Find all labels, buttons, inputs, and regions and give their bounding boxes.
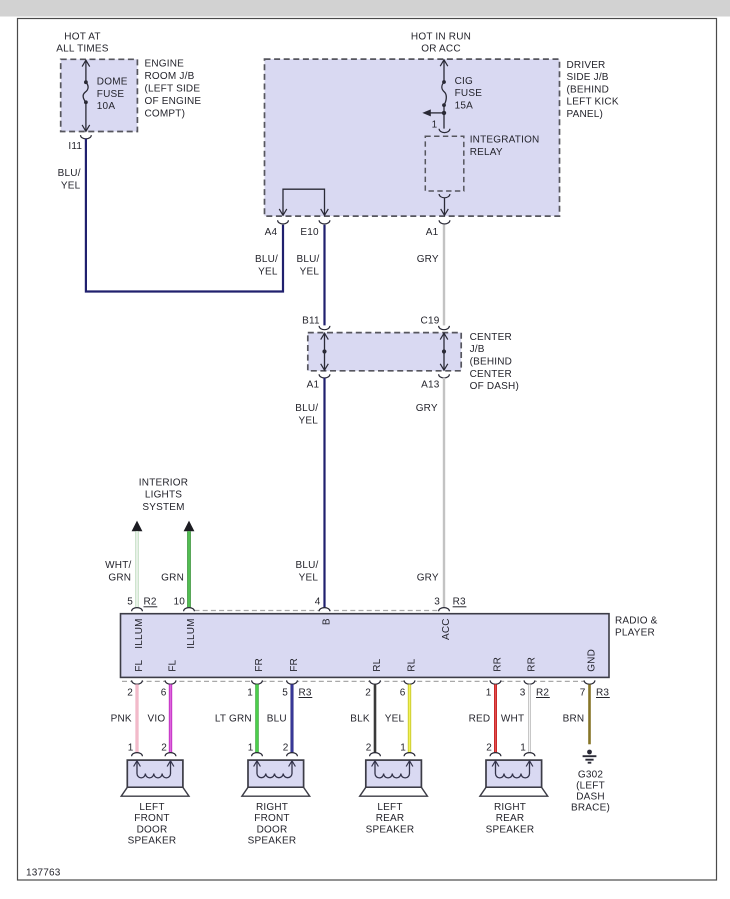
svg-text:FL: FL bbox=[134, 659, 145, 671]
svg-text:LEFT: LEFT bbox=[139, 802, 164, 813]
speaker: LEFT REAR SPEAKER bbox=[360, 753, 428, 797]
wire label PNK bbox=[111, 713, 132, 724]
svg-text:ILLUM: ILLUM bbox=[186, 618, 197, 648]
svg-text:(BEHIND: (BEHIND bbox=[567, 85, 610, 96]
label ENGINE ROOM J/B (LEFT SIDE OF ENGINE COMPT) bbox=[145, 59, 202, 120]
svg-text:DOME: DOME bbox=[97, 77, 128, 88]
svg-text:A4: A4 bbox=[265, 227, 278, 238]
svg-text:FL: FL bbox=[168, 659, 179, 671]
svg-text:ACC: ACC bbox=[441, 618, 452, 640]
svg-text:PLAYER: PLAYER bbox=[615, 627, 655, 638]
wire BLU/YEL from I11 to A4 bbox=[86, 139, 283, 292]
connector pin C19 bbox=[421, 315, 450, 329]
svg-text:15A: 15A bbox=[455, 101, 474, 112]
svg-text:1: 1 bbox=[432, 119, 438, 130]
svg-text:OF ENGINE: OF ENGINE bbox=[145, 96, 202, 107]
wire label BRN bbox=[563, 713, 585, 724]
svg-text:6: 6 bbox=[161, 687, 167, 698]
label RADIO & PLAYER bbox=[615, 615, 658, 638]
svg-text:LIGHTS: LIGHTS bbox=[145, 490, 182, 501]
svg-text:WHT/: WHT/ bbox=[105, 560, 131, 571]
wire RED from radio to load bbox=[494, 684, 497, 752]
svg-text:(BEHIND: (BEHIND bbox=[470, 357, 513, 368]
wire label YEL bbox=[385, 713, 405, 724]
svg-text:LEFT KICK: LEFT KICK bbox=[567, 97, 619, 108]
fuse DOME FUSE 10A bbox=[82, 60, 90, 131]
wire label GRY (above radio) bbox=[417, 572, 439, 583]
svg-text:RL: RL bbox=[407, 658, 418, 671]
svg-text:YEL: YEL bbox=[61, 180, 81, 191]
svg-text:BRN: BRN bbox=[563, 713, 585, 724]
svg-text:A1: A1 bbox=[307, 379, 320, 390]
wire label RED bbox=[469, 713, 491, 724]
svg-text:SYSTEM: SYSTEM bbox=[142, 502, 184, 513]
wire label VIO bbox=[147, 713, 165, 724]
svg-text:FUSE: FUSE bbox=[97, 89, 125, 100]
connector pin E10 bbox=[300, 220, 330, 238]
label RIGHT FRONT DOOR SPEAKER bbox=[248, 802, 297, 846]
grid ref R3 (pin 3) bbox=[453, 597, 467, 608]
wire label BLU/YEL (above radio) bbox=[295, 560, 318, 583]
svg-text:BLU/: BLU/ bbox=[255, 254, 278, 265]
wire label WHT bbox=[501, 713, 524, 724]
svg-text:OF DASH): OF DASH) bbox=[470, 381, 519, 392]
wire GRY from A1 to C19 bbox=[443, 225, 445, 326]
junction block: CENTER J/B (dashed box) bbox=[308, 333, 461, 371]
svg-text:FRONT: FRONT bbox=[134, 813, 169, 824]
svg-text:ENGINE: ENGINE bbox=[145, 59, 185, 70]
svg-text:YEL: YEL bbox=[300, 267, 320, 278]
svg-text:1: 1 bbox=[247, 687, 253, 698]
label HOT AT ALL TIMES bbox=[56, 31, 109, 54]
wire GRN from radio pin 10 to interior lights bbox=[187, 531, 191, 607]
svg-text:INTEGRATION: INTEGRATION bbox=[470, 134, 540, 145]
wire VIO from radio to load bbox=[169, 684, 172, 752]
svg-text:DRIVER: DRIVER bbox=[567, 60, 606, 71]
svg-text:LEFT: LEFT bbox=[377, 802, 402, 813]
svg-text:R2: R2 bbox=[536, 687, 549, 698]
svg-text:2: 2 bbox=[365, 687, 371, 698]
wire label GRN bbox=[161, 572, 184, 583]
svg-text:J/B: J/B bbox=[470, 344, 485, 355]
grid ref R2 (pin 3) bbox=[536, 687, 550, 698]
dashed connector line (radio top connector) bbox=[195, 610, 439, 612]
svg-text:2: 2 bbox=[127, 687, 133, 698]
label DRIVER SIDE J/B (BEHIND LEFT KICK PANEL) bbox=[567, 60, 619, 120]
grid ref R2 (pin 5) bbox=[144, 597, 158, 608]
wire PNK from radio to load bbox=[136, 684, 139, 752]
connector pin A1 (center J/B) bbox=[307, 374, 330, 390]
svg-text:PANEL): PANEL) bbox=[567, 109, 604, 120]
svg-text:GRY: GRY bbox=[417, 254, 439, 265]
wire label BLK bbox=[350, 713, 370, 724]
svg-text:1: 1 bbox=[400, 742, 406, 753]
wire WHT from radio to load bbox=[528, 684, 531, 752]
svg-text:I11: I11 bbox=[68, 141, 82, 152]
wire BLK from radio to load bbox=[374, 684, 377, 752]
svg-text:RIGHT: RIGHT bbox=[256, 802, 288, 813]
wire label LT GRN bbox=[215, 713, 252, 724]
relay: INTEGRATION RELAY (dashed box) bbox=[425, 136, 464, 191]
svg-text:R3: R3 bbox=[299, 687, 312, 698]
svg-text:2: 2 bbox=[283, 742, 289, 753]
svg-text:RADIO &: RADIO & bbox=[615, 615, 658, 626]
svg-text:A13: A13 bbox=[421, 379, 440, 390]
speaker: RIGHT FRONT DOOR SPEAKER bbox=[242, 753, 310, 797]
speaker pin 1 (x=409.5) bbox=[400, 742, 406, 753]
svg-text:GRY: GRY bbox=[416, 403, 438, 414]
svg-text:INTERIOR: INTERIOR bbox=[139, 477, 188, 488]
speaker pin 1 (x=529.5) bbox=[520, 742, 526, 753]
pin 1 of integration relay bbox=[432, 119, 450, 132]
pin 2 (radio bottom, x=137) bbox=[127, 680, 142, 698]
svg-text:ILLUM: ILLUM bbox=[134, 618, 145, 648]
svg-text:RL: RL bbox=[372, 658, 383, 671]
pin 1 (radio bottom, x=257) bbox=[247, 680, 262, 698]
svg-text:OR ACC: OR ACC bbox=[421, 44, 461, 55]
svg-text:E10: E10 bbox=[300, 227, 319, 238]
wire label BLU bbox=[267, 713, 287, 724]
fuse CIG FUSE 15A bbox=[440, 60, 448, 129]
svg-text:YEL: YEL bbox=[298, 415, 318, 426]
off-page arrow to interior lights (WHT/GRN) bbox=[132, 521, 143, 532]
svg-text:DOOR: DOOR bbox=[257, 824, 288, 835]
pin 4 (radio, B) bbox=[315, 597, 330, 612]
svg-text:3: 3 bbox=[520, 687, 526, 698]
svg-text:RR: RR bbox=[493, 657, 504, 672]
svg-text:FR: FR bbox=[254, 658, 265, 672]
wire label GRY (A1 column) bbox=[417, 254, 439, 265]
speaker pin 1 (x=257) bbox=[248, 742, 254, 753]
ground G302 bbox=[583, 750, 597, 763]
svg-text:CENTER: CENTER bbox=[470, 369, 512, 380]
wire BLU/YEL from E10 to B11 bbox=[323, 225, 325, 326]
label INTEGRATION RELAY bbox=[470, 134, 540, 158]
svg-text:A1: A1 bbox=[426, 227, 439, 238]
svg-text:SPEAKER: SPEAKER bbox=[486, 824, 535, 835]
svg-text:BRACE): BRACE) bbox=[571, 803, 610, 814]
svg-text:ALL TIMES: ALL TIMES bbox=[56, 44, 109, 55]
pin 10 (radio, ILLUM) bbox=[173, 597, 194, 612]
svg-text:GRY: GRY bbox=[417, 572, 439, 583]
svg-text:SIDE J/B: SIDE J/B bbox=[567, 72, 609, 83]
component: RADIO & PLAYER (solid box) bbox=[121, 614, 610, 678]
wire BLU from radio to load bbox=[291, 684, 294, 752]
svg-text:SPEAKER: SPEAKER bbox=[128, 836, 177, 847]
svg-text:R3: R3 bbox=[453, 597, 466, 608]
svg-text:YEL: YEL bbox=[299, 572, 319, 583]
svg-text:FR: FR bbox=[289, 658, 300, 672]
svg-text:1: 1 bbox=[128, 742, 134, 753]
svg-text:2: 2 bbox=[366, 742, 372, 753]
svg-text:SPEAKER: SPEAKER bbox=[366, 824, 415, 835]
svg-text:BLU/: BLU/ bbox=[295, 403, 318, 414]
wire LT GRN from radio to load bbox=[255, 684, 258, 752]
svg-text:4: 4 bbox=[315, 597, 321, 608]
svg-text:R3: R3 bbox=[596, 687, 609, 698]
svg-text:SPEAKER: SPEAKER bbox=[248, 836, 297, 847]
svg-text:REAR: REAR bbox=[496, 813, 525, 824]
node: junction dot with branch arrow (to other circuits) bbox=[422, 109, 446, 116]
speaker pin 2 (x=375) bbox=[366, 742, 372, 753]
svg-text:C19: C19 bbox=[421, 315, 440, 326]
grid ref R3 (pin 7) bbox=[596, 687, 610, 698]
wire jumper inside J/B linking A4 and E10 bbox=[279, 189, 328, 215]
pin 5 (radio, ILLUM) bbox=[127, 597, 142, 612]
svg-text:GRN: GRN bbox=[108, 572, 131, 583]
svg-text:1: 1 bbox=[248, 742, 254, 753]
svg-text:BLK: BLK bbox=[350, 713, 370, 724]
value label DOME FUSE 10A bbox=[97, 77, 128, 113]
svg-text:GRN: GRN bbox=[161, 572, 184, 583]
svg-text:FRONT: FRONT bbox=[254, 813, 289, 824]
wire GRY from A13 to radio pin 3 bbox=[443, 378, 445, 608]
connector pin A4 bbox=[265, 220, 289, 238]
off-page arrow to interior lights (GRN) bbox=[184, 521, 195, 532]
svg-text:DOOR: DOOR bbox=[137, 824, 168, 835]
dashed connector line (radio bottom connector) bbox=[122, 680, 595, 682]
connector pin I11 bbox=[68, 135, 91, 152]
wire BLU/YEL from A1 to radio pin 4 bbox=[323, 378, 325, 608]
svg-text:YEL: YEL bbox=[258, 267, 278, 278]
svg-text:6: 6 bbox=[400, 687, 406, 698]
wire label GRY (below center J/B) bbox=[416, 403, 438, 414]
connector pin A13 bbox=[421, 374, 449, 390]
label LEFT FRONT DOOR SPEAKER bbox=[128, 802, 177, 846]
grid ref R3 (pin 5) bbox=[299, 687, 313, 698]
svg-text:VIO: VIO bbox=[147, 713, 165, 724]
speaker pin 2 (x=495.5) bbox=[486, 742, 492, 753]
label HOT IN RUN OR ACC bbox=[411, 31, 471, 54]
svg-text:CIG: CIG bbox=[455, 76, 473, 87]
wire WHT/GRN from radio pin 5 to interior lights bbox=[135, 531, 138, 607]
svg-text:BLU/: BLU/ bbox=[295, 560, 318, 571]
svg-text:GND: GND bbox=[587, 649, 598, 672]
pin 5 (radio bottom, x=292) bbox=[282, 680, 297, 698]
pin 6 (radio bottom, x=170.5) bbox=[161, 680, 176, 698]
speaker: LEFT FRONT DOOR SPEAKER bbox=[121, 753, 189, 797]
speaker pin 1 (x=137) bbox=[128, 742, 134, 753]
value label CIG FUSE 15A bbox=[455, 76, 483, 112]
wire YEL from radio to load bbox=[408, 684, 411, 752]
relay output connector and wire to box edge bbox=[439, 194, 450, 215]
svg-text:RR: RR bbox=[527, 657, 538, 672]
pin 6 (radio bottom, x=409.5) bbox=[400, 680, 415, 698]
svg-text:WHT: WHT bbox=[501, 713, 524, 724]
label INTERIOR LIGHTS SYSTEM bbox=[139, 477, 188, 513]
svg-text:3: 3 bbox=[434, 597, 440, 608]
label LEFT REAR SPEAKER bbox=[366, 802, 415, 835]
svg-text:(LEFT: (LEFT bbox=[576, 781, 605, 792]
connector pin B11 bbox=[302, 315, 330, 329]
pin 2 (radio bottom, x=375) bbox=[365, 680, 380, 698]
svg-text:BLU: BLU bbox=[267, 713, 287, 724]
junction block: ENGINE ROOM J/B (dashed box) bbox=[61, 59, 138, 131]
svg-text:HOT IN RUN: HOT IN RUN bbox=[411, 31, 471, 42]
svg-text:DASH: DASH bbox=[576, 792, 605, 803]
speaker pin 2 (x=170.5) bbox=[161, 742, 167, 753]
label RIGHT REAR SPEAKER bbox=[486, 802, 535, 835]
svg-text:7: 7 bbox=[580, 687, 586, 698]
junction block: DRIVER SIDE J/B (dashed box) bbox=[265, 59, 560, 216]
svg-text:G302: G302 bbox=[578, 769, 604, 780]
wire label BLU/YEL (below center J/B) bbox=[295, 403, 318, 426]
svg-text:10: 10 bbox=[173, 597, 185, 608]
svg-text:REAR: REAR bbox=[376, 813, 405, 824]
svg-text:RED: RED bbox=[469, 713, 491, 724]
pin 1 (radio bottom, x=495.5) bbox=[486, 680, 501, 698]
svg-text:137763: 137763 bbox=[26, 868, 61, 879]
pin 3 (radio bottom, x=529.5) bbox=[520, 680, 535, 698]
svg-text:ROOM J/B: ROOM J/B bbox=[145, 71, 195, 82]
wire through center J/B (C19 to A13) with junction node bbox=[440, 333, 448, 370]
svg-text:RIGHT: RIGHT bbox=[494, 802, 526, 813]
svg-text:RELAY: RELAY bbox=[470, 147, 503, 158]
svg-text:5: 5 bbox=[127, 597, 133, 608]
svg-text:HOT AT: HOT AT bbox=[64, 31, 100, 42]
wire label WHT/GRN bbox=[105, 560, 131, 583]
wire through center J/B (B11 to A1) with junction node bbox=[321, 333, 329, 370]
svg-text:BLU/: BLU/ bbox=[58, 168, 81, 179]
connector pin A1 (driver J/B) bbox=[426, 220, 450, 238]
svg-text:YEL: YEL bbox=[385, 713, 405, 724]
pin 7 (radio bottom, x=589.5) bbox=[580, 680, 595, 698]
svg-text:FUSE: FUSE bbox=[455, 88, 483, 99]
svg-text:2: 2 bbox=[486, 742, 492, 753]
wire BRN from radio to load bbox=[588, 684, 591, 744]
svg-text:COMPT): COMPT) bbox=[145, 109, 186, 120]
label CENTER J/B (BEHIND CENTER OF DASH) bbox=[470, 332, 519, 392]
svg-text:PNK: PNK bbox=[111, 713, 132, 724]
svg-text:LT GRN: LT GRN bbox=[215, 713, 252, 724]
svg-text:(LEFT SIDE: (LEFT SIDE bbox=[145, 84, 201, 95]
svg-text:BLU/: BLU/ bbox=[296, 254, 319, 265]
svg-text:2: 2 bbox=[161, 742, 167, 753]
svg-text:B: B bbox=[322, 618, 333, 625]
svg-text:CENTER: CENTER bbox=[470, 332, 512, 343]
svg-text:1: 1 bbox=[486, 687, 492, 698]
svg-text:5: 5 bbox=[282, 687, 288, 698]
pin 3 (radio, ACC) bbox=[434, 597, 449, 612]
speaker: RIGHT REAR SPEAKER bbox=[480, 753, 548, 797]
svg-text:B11: B11 bbox=[302, 315, 320, 326]
wire label BLU/YEL (I11 column) bbox=[58, 168, 81, 191]
wire label BLU/YEL (E10 column) bbox=[296, 254, 319, 277]
wire label BLU/YEL (A4 column) bbox=[255, 254, 278, 277]
svg-text:1: 1 bbox=[520, 742, 526, 753]
label G302 (LEFT DASH BRACE) bbox=[571, 769, 610, 813]
svg-text:R2: R2 bbox=[144, 597, 157, 608]
speaker pin 2 (x=292) bbox=[283, 742, 289, 753]
svg-text:10A: 10A bbox=[97, 101, 116, 112]
